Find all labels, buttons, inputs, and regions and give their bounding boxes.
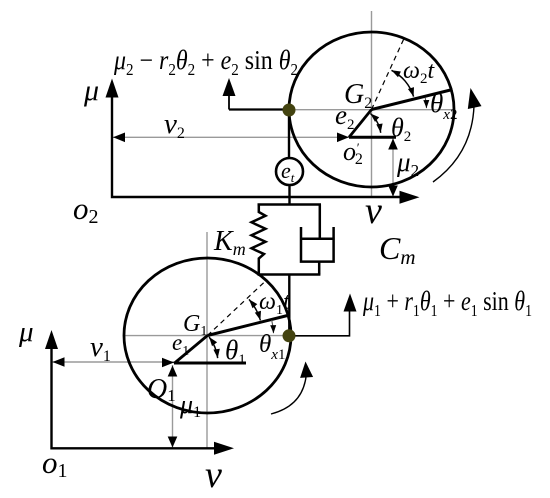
svg-text:ω2t: ω2t [403, 58, 435, 87]
svg-text:v: v [205, 454, 222, 496]
svg-text:v: v [365, 190, 382, 232]
svg-text:μ: μ [83, 74, 99, 107]
svg-text:μ: μ [18, 316, 34, 348]
svg-text:μ1 + r1θ1 + e1 sin θ1: μ1 + r1θ1 + e1 sin θ1 [362, 286, 532, 320]
svg-text:μ2 − r2θ2 + e2 sin θ2: μ2 − r2θ2 + e2 sin θ2 [113, 45, 298, 79]
svg-text:ω1t: ω1t [259, 289, 291, 318]
